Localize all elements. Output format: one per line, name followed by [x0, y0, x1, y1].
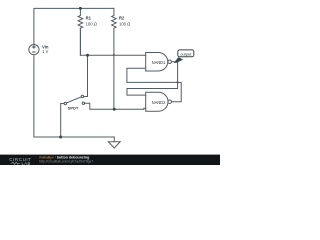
ground GND stub	[113, 137, 115, 142]
svg-text:makaByv / button debouncing: makaByv / button debouncing	[39, 155, 89, 159]
svg-text:NAND2: NAND2	[152, 100, 166, 105]
svg-text:LAB: LAB	[22, 161, 31, 165]
wire NAND1 output node	[171, 61, 177, 63]
voltage source plus sign	[32, 45, 35, 48]
wire NAND1 out to NAND2 input A (feedback)	[127, 62, 178, 95]
NAND gate U2 NAND2 body	[146, 92, 168, 111]
wire upper throw to node A	[84, 55, 88, 96]
junction dot lower wire R2	[113, 108, 116, 111]
voltage source minus sign	[32, 51, 35, 53]
junction dot bottom rail switch pole	[59, 136, 62, 139]
svg-text:R1: R1	[86, 16, 92, 21]
junction crossing smudge feedback wires	[177, 81, 179, 83]
svg-text:NAND1: NAND1	[152, 60, 166, 65]
wire left rail	[34, 55, 114, 137]
wire top rail	[34, 8, 114, 44]
wire R1 to NAND1 input A	[80, 28, 145, 55]
switch SW1 upper throw contact	[81, 95, 83, 97]
wire switch pole	[61, 104, 64, 138]
switch SW1 SPDT pole contact	[64, 102, 66, 104]
svg-text:R2: R2	[119, 16, 125, 21]
svg-text:http://circuitlab.com/cyh7a293: http://circuitlab.com/cyh7a29379ge7	[39, 160, 93, 164]
svg-text:100 Ω: 100 Ω	[119, 21, 130, 26]
output flag label box	[178, 50, 194, 57]
NAND1 output bubble	[168, 60, 172, 64]
switch SW1 lever	[66, 97, 81, 103]
resistor R2	[112, 8, 117, 109]
switch SW1 lower throw contact	[82, 102, 84, 104]
svg-text:1 V: 1 V	[42, 49, 48, 54]
resistor R1	[78, 8, 83, 55]
svg-text:output: output	[180, 52, 192, 57]
wire lower throw to NAND2 input B	[85, 103, 146, 109]
NAND gate U1 NAND1 body	[146, 53, 168, 72]
output flag arrow	[174, 57, 183, 63]
junction dot R1 top rail	[79, 7, 82, 10]
svg-text:100 Ω: 100 Ω	[86, 21, 97, 26]
logo zigzag	[11, 162, 21, 164]
voltage source V1 Vin	[29, 45, 39, 55]
ground GND triangle	[108, 142, 120, 148]
svg-text:SPDT: SPDT	[68, 106, 79, 111]
wire NAND2 out to NAND1 input B (feedback)	[127, 68, 181, 102]
junction dot R2 crossing smudge	[113, 54, 115, 56]
footer black bar	[0, 155, 220, 165]
junction dot node A on NAND1 input wire	[86, 54, 89, 57]
NAND2 output bubble	[168, 100, 172, 104]
